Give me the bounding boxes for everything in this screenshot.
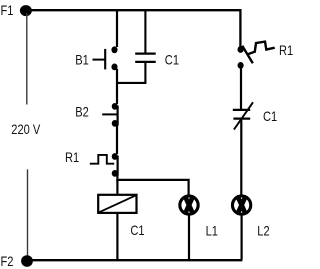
lamp L2 xyxy=(232,196,250,215)
svg-text:L1: L1 xyxy=(206,223,218,238)
svg-text:F1: F1 xyxy=(1,3,14,18)
wire middle branch upper stub xyxy=(116,10,118,47)
wire C1 contact to lamp L2 xyxy=(240,120,242,195)
svg-text:220 V: 220 V xyxy=(11,122,41,137)
wire top rail xyxy=(26,9,240,11)
contact C1 NO (capacitor style, parallel with B1) xyxy=(117,11,156,83)
wire bottom rail xyxy=(27,259,242,261)
svg-text:C1: C1 xyxy=(263,109,277,124)
wire left lower segment xyxy=(27,169,29,258)
wire left upper segment xyxy=(26,13,28,105)
svg-text:F2: F2 xyxy=(1,254,14,269)
wire R1 to junction, branch to L1 xyxy=(116,175,118,179)
thermal overload contact R1 (left, NC) xyxy=(90,153,118,177)
wire right branch upper stub xyxy=(239,9,241,47)
relay coil C1 xyxy=(98,195,136,213)
wire below B1 to B2 xyxy=(116,69,118,104)
svg-text:C1: C1 xyxy=(130,223,144,238)
wire lamp L2 to bottom rail xyxy=(241,216,243,260)
wire lamp L1 to bottom rail xyxy=(188,216,190,260)
wire R1 to C1 contact xyxy=(240,68,242,110)
wire junction down to coil xyxy=(116,179,118,195)
svg-text:C1: C1 xyxy=(165,53,179,68)
node F2 xyxy=(21,255,33,267)
pushbutton B1 (NO) xyxy=(93,46,118,70)
wire junction to L1 branch xyxy=(116,180,188,195)
thermal overload contact R1 (right, NO tripped) xyxy=(238,42,275,69)
svg-text:R1: R1 xyxy=(65,150,79,165)
wire coil to bottom rail xyxy=(116,213,118,260)
svg-text:B1: B1 xyxy=(75,52,89,67)
lamp L1 xyxy=(180,196,198,215)
svg-text:L2: L2 xyxy=(257,223,269,238)
svg-text:B2: B2 xyxy=(75,104,89,119)
contact C1 NC (capacitor style with slash) xyxy=(233,102,253,129)
node F1 xyxy=(20,5,32,16)
pushbutton B2 (NC) xyxy=(102,103,118,127)
wire below B2 to R1 xyxy=(116,125,118,154)
svg-text:R1: R1 xyxy=(279,43,293,58)
